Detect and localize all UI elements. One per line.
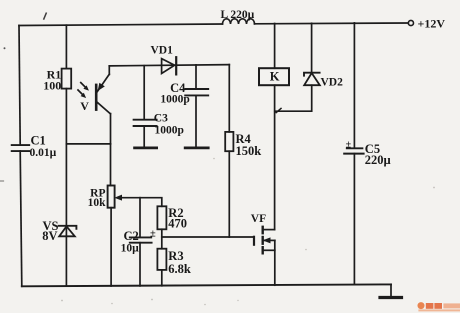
svg-text:100: 100 bbox=[43, 78, 61, 92]
wire left vertical upper bbox=[19, 26, 20, 145]
capacitor C4 bbox=[160, 65, 208, 148]
inductor L 220u bbox=[221, 9, 255, 24]
svg-text:220µ: 220µ bbox=[365, 153, 391, 167]
wire emitter junction horizontal bbox=[66, 143, 110, 145]
svg-text:C1: C1 bbox=[31, 134, 46, 148]
terminal +12V bbox=[408, 17, 445, 31]
wire R3 bottom bbox=[161, 270, 163, 286]
svg-text:6.8k: 6.8k bbox=[168, 262, 191, 276]
wire top mid node (collector to VD1 to R4 corner) bbox=[109, 65, 229, 66]
mosfet VF bbox=[251, 213, 275, 253]
svg-text:470: 470 bbox=[168, 217, 187, 231]
wire collector riser bbox=[108, 66, 110, 75]
svg-text:10k: 10k bbox=[88, 197, 107, 209]
svg-text:8V: 8V bbox=[42, 229, 57, 243]
svg-text:C2: C2 bbox=[124, 229, 139, 243]
wire bottom rail bbox=[22, 284, 391, 286]
junction tick bbox=[276, 108, 281, 112]
wire C5 feed bbox=[353, 23, 355, 148]
diode VD1 bbox=[151, 44, 177, 74]
phototransistor V bbox=[78, 74, 110, 114]
wire relay K feed bbox=[274, 24, 276, 69]
capacitor C3 bbox=[134, 66, 184, 148]
ground bbox=[380, 284, 402, 297]
wire top rail right segment bbox=[255, 22, 409, 25]
relay K bbox=[259, 68, 289, 85]
svg-text:V: V bbox=[80, 99, 89, 113]
wire wiper to R2 top bbox=[121, 198, 162, 207]
wire R4 feed corner bbox=[228, 65, 230, 132]
svg-text:150k: 150k bbox=[236, 144, 262, 158]
resistor R3 bbox=[157, 249, 191, 276]
diode VD2 bbox=[304, 73, 343, 89]
wire VF source to bottom rail bbox=[274, 240, 276, 285]
speck marks (scan artifacts) bbox=[44, 13, 46, 19]
watermark logo bbox=[418, 302, 460, 311]
svg-text:VD2: VD2 bbox=[321, 76, 344, 88]
svg-text:+12V: +12V bbox=[418, 17, 446, 31]
wire R1 feed from rail bbox=[65, 25, 67, 68]
svg-text:VF: VF bbox=[251, 213, 266, 225]
wire K bottom to VF drain bbox=[274, 85, 276, 229]
resistor R1 bbox=[43, 67, 71, 92]
wire R4 bottom to gate node bbox=[228, 151, 230, 237]
wire R1 bottom through VS to bottom rail bbox=[65, 89, 67, 287]
svg-text:0.01µ: 0.01µ bbox=[30, 147, 57, 159]
svg-text:1000p: 1000p bbox=[155, 125, 184, 137]
potentiometer RP bbox=[88, 186, 122, 210]
resistor R2 bbox=[157, 206, 187, 231]
svg-text:±: ± bbox=[346, 139, 352, 150]
wire VD2 feed bbox=[311, 23, 313, 72]
svg-text:K: K bbox=[270, 70, 280, 84]
wire RP bottom bbox=[110, 208, 112, 286]
wire gate node bbox=[162, 236, 254, 238]
svg-text:C3: C3 bbox=[154, 113, 168, 125]
wire emitter vertical down to RP bbox=[110, 114, 112, 186]
zener VS bbox=[42, 219, 76, 243]
svg-text:1000p: 1000p bbox=[160, 94, 189, 106]
wire VD2 bottom to K branch bbox=[275, 85, 312, 111]
svg-text:10µ: 10µ bbox=[121, 243, 140, 255]
capacitor C2 bbox=[121, 198, 156, 286]
wire left vertical lower bbox=[20, 151, 22, 286]
svg-text:VD1: VD1 bbox=[151, 44, 174, 56]
resistor R4 bbox=[225, 132, 261, 158]
capacitor C5 bbox=[344, 139, 391, 284]
capacitor C1 bbox=[12, 134, 57, 160]
svg-text:±: ± bbox=[150, 228, 156, 239]
wire R2-R3 link bbox=[161, 229, 163, 248]
wire top rail left segment bbox=[19, 24, 223, 26]
svg-text:L 220µ: L 220µ bbox=[221, 9, 255, 21]
